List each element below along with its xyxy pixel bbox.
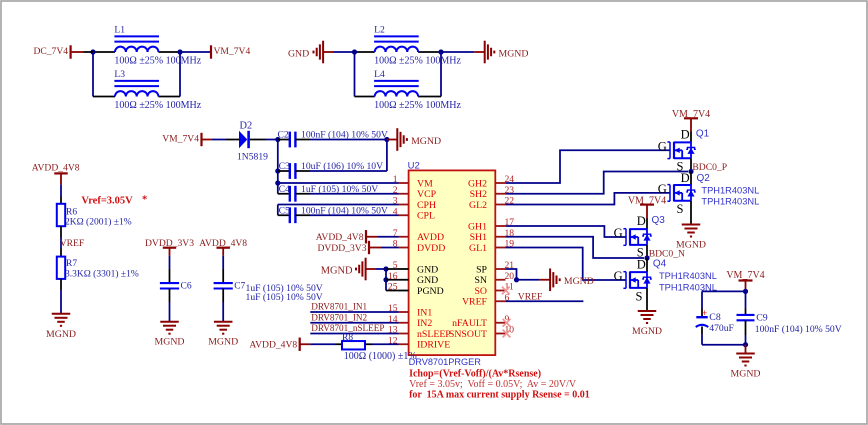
svg-text:MGND: MGND — [632, 326, 662, 337]
svg-text:MGND: MGND — [411, 136, 441, 147]
svg-text:C3: C3 — [279, 161, 290, 172]
svg-text:3.3KΩ (3301) ±1%: 3.3KΩ (3301) ±1% — [65, 269, 139, 280]
svg-text:SO: SO — [474, 286, 487, 297]
svg-text:SN: SN — [474, 275, 487, 286]
svg-text:100Ω ±25% 100MHz: 100Ω ±25% 100MHz — [374, 55, 461, 66]
svg-text:AVDD: AVDD — [417, 232, 444, 243]
svg-text:D: D — [681, 128, 690, 142]
svg-text:GH1: GH1 — [468, 221, 487, 232]
svg-text:TPH1R403NL: TPH1R403NL — [659, 271, 717, 281]
svg-text:100nF (104) 10% 50V: 100nF (104) 10% 50V — [755, 324, 842, 335]
svg-text:G: G — [658, 182, 667, 196]
svg-text:GL2: GL2 — [469, 200, 487, 211]
svg-text:100nF (104) 10% 50V: 100nF (104) 10% 50V — [301, 130, 388, 141]
svg-text:VM_7V4: VM_7V4 — [726, 270, 764, 281]
svg-text:D: D — [681, 171, 690, 185]
svg-text:MGND: MGND — [155, 337, 185, 348]
svg-text:100Ω ±25% 100MHz: 100Ω ±25% 100MHz — [114, 55, 201, 66]
svg-text:TPH1R403NL: TPH1R403NL — [701, 185, 759, 195]
svg-text:C4: C4 — [279, 184, 290, 195]
svg-text:R7: R7 — [66, 259, 77, 269]
svg-text:TPH1R403NL: TPH1R403NL — [701, 196, 759, 206]
svg-text:1N5819: 1N5819 — [237, 151, 268, 162]
svg-text:VREF: VREF — [462, 297, 488, 308]
svg-text:DVDD_3V3: DVDD_3V3 — [317, 243, 366, 254]
svg-text:L3: L3 — [114, 69, 125, 80]
svg-text:nSLEEP: nSLEEP — [417, 329, 451, 340]
svg-text:G: G — [658, 140, 667, 154]
svg-text:SNSOUT: SNSOUT — [449, 329, 487, 340]
svg-text:L4: L4 — [374, 69, 385, 80]
svg-text:20: 20 — [505, 271, 515, 282]
svg-text:IN2: IN2 — [417, 318, 432, 329]
svg-text:100Ω ±25% 100MHz: 100Ω ±25% 100MHz — [114, 100, 201, 111]
svg-text:SP: SP — [476, 264, 487, 275]
svg-text:Q1: Q1 — [696, 129, 710, 140]
svg-text:S: S — [677, 202, 684, 216]
svg-text:VM_7V4: VM_7V4 — [162, 134, 199, 145]
svg-text:U2: U2 — [408, 160, 420, 171]
svg-text:GND: GND — [288, 48, 309, 59]
svg-text:VREF: VREF — [60, 238, 85, 249]
svg-text:AVDD_4V8: AVDD_4V8 — [32, 163, 80, 174]
svg-text:C5: C5 — [279, 205, 290, 216]
svg-text:100Ω (1000) ±1%: 100Ω (1000) ±1% — [344, 351, 417, 362]
svg-text:L2: L2 — [374, 25, 385, 36]
svg-text:VCP: VCP — [417, 189, 437, 200]
svg-text:DVDD: DVDD — [417, 243, 445, 254]
svg-text:DRV8701_IN2: DRV8701_IN2 — [311, 312, 367, 322]
svg-text:DC_7V4: DC_7V4 — [33, 46, 68, 57]
svg-text:DRV8701_IN1: DRV8701_IN1 — [311, 302, 367, 312]
svg-text:10uF (106) 10% 10V: 10uF (106) 10% 10V — [301, 161, 383, 172]
svg-text:R8: R8 — [342, 333, 353, 343]
svg-text:Q4: Q4 — [653, 258, 667, 269]
svg-text:SH2: SH2 — [470, 189, 488, 200]
svg-text:C9: C9 — [756, 312, 768, 323]
svg-text:R6: R6 — [66, 208, 77, 218]
svg-text:GND: GND — [417, 264, 438, 275]
svg-text:DRV8701_nSLEEP: DRV8701_nSLEEP — [311, 323, 384, 333]
svg-text:IN1: IN1 — [417, 307, 432, 318]
svg-text:S: S — [636, 290, 643, 304]
svg-text:AVDD_4V8: AVDD_4V8 — [316, 232, 364, 243]
svg-text:470uF: 470uF — [709, 323, 734, 334]
svg-text:G: G — [614, 226, 623, 240]
svg-text:for 15A max current supply Rs: for 15A max current supply Rsense = 0.01 — [409, 389, 590, 400]
svg-text:CPH: CPH — [417, 200, 436, 211]
svg-text:Q2: Q2 — [697, 173, 711, 184]
svg-text:C2: C2 — [278, 130, 289, 141]
svg-text:GL1: GL1 — [469, 243, 487, 254]
svg-text:CPL: CPL — [417, 211, 435, 222]
svg-text:C7: C7 — [234, 282, 245, 292]
svg-text:PGND: PGND — [417, 286, 444, 297]
svg-text:D2: D2 — [240, 121, 253, 132]
svg-text:MGND: MGND — [564, 276, 594, 287]
svg-text:L1: L1 — [114, 25, 125, 36]
svg-text:MGND: MGND — [731, 369, 761, 380]
svg-text:2KΩ (2001) ±1%: 2KΩ (2001) ±1% — [65, 216, 132, 227]
svg-text:D: D — [637, 214, 646, 228]
svg-text:DRV8701PRGER: DRV8701PRGER — [409, 357, 482, 367]
svg-text:VM_7V4: VM_7V4 — [214, 46, 251, 57]
svg-text:MGND: MGND — [208, 337, 238, 348]
svg-text:Vref=3.05V: Vref=3.05V — [81, 195, 133, 206]
svg-text:100Ω ±25% 100MHz: 100Ω ±25% 100MHz — [374, 100, 461, 111]
svg-text:C8: C8 — [709, 312, 721, 323]
svg-text:GH2: GH2 — [468, 178, 487, 189]
svg-text:+: + — [702, 309, 707, 319]
svg-text:*: * — [142, 194, 147, 205]
svg-text:VREF: VREF — [518, 291, 543, 302]
svg-text:MGND: MGND — [46, 329, 76, 340]
svg-text:Q3: Q3 — [652, 215, 666, 226]
svg-text:GND: GND — [417, 275, 438, 286]
svg-text:BDC0_P: BDC0_P — [692, 162, 727, 173]
svg-text:IDRIVE: IDRIVE — [417, 340, 450, 351]
svg-text:AVDD_4V8: AVDD_4V8 — [249, 340, 297, 351]
svg-text:nFAULT: nFAULT — [452, 318, 487, 329]
svg-text:G: G — [614, 269, 623, 283]
svg-text:Ichop=(Vref-Voff)/(Av*Rsense): Ichop=(Vref-Voff)/(Av*Rsense) — [409, 369, 541, 380]
svg-text:C6: C6 — [181, 282, 192, 292]
svg-text:MGND: MGND — [321, 265, 353, 276]
svg-text:D: D — [637, 258, 646, 272]
svg-text:MGND: MGND — [499, 48, 529, 59]
svg-text:SH1: SH1 — [470, 232, 488, 243]
svg-text:VM: VM — [417, 178, 433, 189]
